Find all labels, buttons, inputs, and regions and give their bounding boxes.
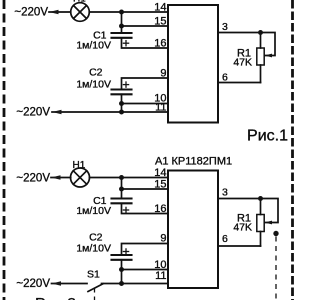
wire C1 to pin 16 (Fig.2)	[122, 203, 169, 213]
mechanical link dashed line R1 to S1 (Fig.2)	[275, 237, 277, 300]
node junction on pin 15 wire (Fig.1)	[119, 24, 124, 29]
op-amp box IC A1 KR1182PM1 (Fig.2)	[168, 171, 218, 289]
capacitor C1 (Fig.1)	[112, 33, 132, 38]
node junction on bottom rail (Fig.1)	[119, 110, 124, 115]
svg-text:1м/10V: 1м/10V	[76, 40, 111, 52]
svg-text:47K: 47K	[233, 222, 252, 234]
wire arrow to lamp (Fig.1 top rail left)	[49, 10, 71, 15]
wire pin 3 to R1 top (Fig.1)	[218, 32, 261, 34]
node junction on pin 3 wire (Fig.2)	[258, 196, 263, 201]
svg-text:A1 КР1182ПМ1: A1 КР1182ПМ1	[155, 156, 232, 168]
wire switch rail to box (Fig.2)	[122, 283, 169, 285]
svg-text:6: 6	[222, 233, 228, 245]
wire lamp to pin 14 (Fig.1)	[89, 11, 168, 13]
svg-text:15: 15	[154, 16, 166, 28]
node junction on pin 10 wire (Fig.2)	[119, 267, 124, 272]
svg-text:3: 3	[222, 21, 228, 33]
svg-text:~220V: ~220V	[16, 278, 50, 290]
page edge dashed line right	[291, 0, 294, 300]
wire pin 15 (Fig.1)	[122, 25, 169, 27]
svg-text:1м/10V: 1м/10V	[76, 243, 111, 255]
mechanical link node at R1 wiper (Fig.2)	[273, 231, 278, 236]
wire junction down to pin15 node (Fig.2)	[121, 178, 123, 190]
svg-text:Рис.2: Рис.2	[35, 296, 76, 300]
capacitor C1 (Fig.2)	[112, 199, 132, 204]
svg-text:14: 14	[154, 2, 166, 14]
wire pin 10 (Fig.1)	[122, 103, 169, 105]
wire arrow to lamp (Fig.2 top rail left)	[51, 175, 71, 180]
svg-text:1м/10V: 1м/10V	[76, 78, 111, 90]
node junction on pin 14 wire (Fig.1)	[119, 10, 124, 15]
resistor R1 potentiometer body (Fig.1)	[257, 33, 264, 83]
wire pin 15 (Fig.2)	[122, 188, 169, 190]
node junction on pin 14 wire (Fig.2)	[119, 175, 124, 180]
capacitor C2 (Fig.2)	[112, 255, 132, 260]
svg-text:16: 16	[154, 203, 166, 215]
svg-text:~220V: ~220V	[16, 107, 50, 119]
wire junction down to pin15 node (Fig.1)	[121, 12, 123, 26]
svg-text:14: 14	[154, 167, 166, 179]
wire C2 down to pin10 node (Fig.1)	[121, 94, 123, 103]
op-amp box IC A1 KR1182PM1 (Fig.1)	[168, 5, 218, 123]
node junction on pin 10 wire (Fig.1)	[119, 101, 124, 106]
wire pin10 node down to switch rail (Fig.2)	[121, 270, 123, 284]
node junction on pin 3 wire (Fig.1)	[258, 30, 263, 35]
wire C1 to pin 16 (Fig.1)	[122, 38, 169, 48]
switch S1 (Fig.2)	[87, 269, 122, 292]
svg-text:9: 9	[160, 233, 166, 245]
node junction on switch rail (Fig.2)	[119, 281, 124, 286]
wire pin 9 down to C2 (Fig.1)	[122, 78, 169, 90]
svg-text:Рис.1: Рис.1	[247, 128, 288, 145]
svg-text:S1: S1	[87, 269, 100, 281]
net ~220V top (Fig.1)	[14, 7, 48, 19]
svg-text:47K: 47K	[233, 57, 252, 69]
capacitor C2 (Fig.1)	[112, 90, 132, 95]
wire junction down to C1 (Fig.2)	[121, 189, 123, 199]
svg-text:11: 11	[155, 270, 166, 282]
wire pin 9 down to C2 (Fig.2)	[122, 244, 169, 256]
wire pin 3 to R1 top (Fig.2)	[218, 198, 261, 200]
wire bottom rail to pin 11 with arrow (Fig.1)	[52, 110, 168, 115]
polarity mark + of C2 (Fig.1)	[123, 82, 128, 87]
svg-text:3: 3	[222, 187, 228, 199]
node junction on pin 15 wire (Fig.2)	[119, 187, 124, 192]
wire junction down to C1 (Fig.1)	[121, 26, 123, 33]
wire pin 6 to R1 bottom (Fig.1)	[218, 82, 261, 84]
polarity mark + of C2 (Fig.2)	[123, 249, 128, 254]
svg-text:9: 9	[160, 68, 166, 80]
wire C2 down to pin10 node (Fig.2)	[121, 260, 123, 270]
wire lamp to pin 14 (Fig.2)	[90, 177, 169, 179]
polarity mark + of C1 (Fig.2)	[123, 207, 128, 212]
wire R1 wiper feedback (Fig.2)	[261, 199, 279, 225]
svg-text:1м/10V: 1м/10V	[76, 205, 111, 217]
mechanical link dashed line below S1 (Fig.2)	[94, 288, 96, 300]
lamp H1 (Fig.1, label cut off at top)	[71, 0, 90, 21]
svg-text:11: 11	[155, 102, 166, 114]
wire pin 10 (Fig.2)	[122, 269, 169, 271]
lamp H1 (Fig.2)	[71, 160, 90, 187]
svg-text:16: 16	[154, 38, 166, 50]
wire bottom rail with arrow to S1 (Fig.2)	[52, 281, 88, 286]
svg-text:C2: C2	[89, 67, 103, 79]
polarity mark + of C1 (Fig.1)	[123, 41, 128, 46]
resistor R1 potentiometer body (Fig.2)	[257, 199, 264, 247]
svg-text:15: 15	[154, 179, 166, 191]
wire R1 wiper feedback (Fig.1)	[261, 33, 276, 58]
svg-text:~220V: ~220V	[14, 7, 48, 19]
svg-text:~220V: ~220V	[16, 173, 50, 185]
page edge dashed line left	[3, 0, 6, 300]
wire pin 6 to R1 bottom (Fig.2)	[218, 245, 261, 247]
wire pin10 node down to bottom rail (Fig.1)	[121, 104, 123, 113]
